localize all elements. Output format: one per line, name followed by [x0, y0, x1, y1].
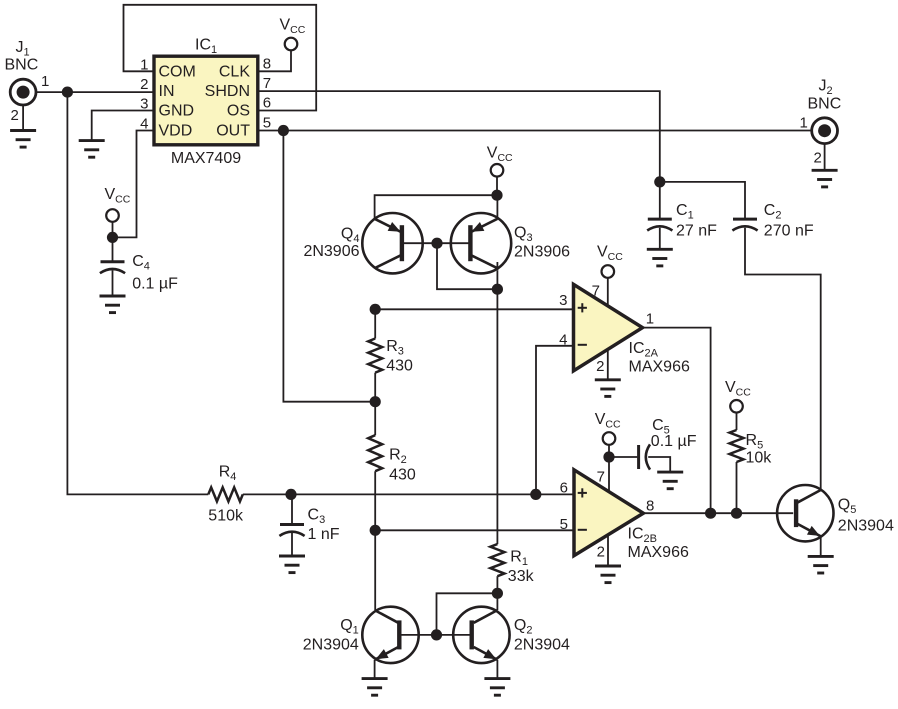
svg-text:2N3906: 2N3906	[303, 243, 359, 260]
svg-text:1: 1	[646, 311, 654, 328]
svg-text:6: 6	[263, 95, 271, 112]
svg-text:430: 430	[389, 467, 416, 484]
svg-text:3: 3	[559, 292, 567, 309]
svg-text:5: 5	[560, 516, 568, 533]
svg-text:2: 2	[140, 76, 148, 93]
svg-text:7: 7	[597, 469, 605, 486]
svg-text:4: 4	[559, 331, 567, 348]
svg-text:BNC: BNC	[808, 96, 842, 113]
svg-text:1 nF: 1 nF	[308, 526, 340, 543]
svg-text:2: 2	[11, 107, 19, 124]
svg-text:VDD: VDD	[159, 123, 193, 140]
svg-text:2N3906: 2N3906	[514, 244, 570, 261]
svg-text:2: 2	[596, 358, 604, 375]
svg-text:7: 7	[263, 75, 271, 92]
svg-text:10k: 10k	[746, 450, 773, 467]
svg-text:5: 5	[263, 115, 271, 132]
svg-text:270 nF: 270 nF	[764, 223, 814, 240]
svg-text:0.1 µF: 0.1 µF	[651, 433, 697, 450]
svg-text:MAX966: MAX966	[628, 544, 689, 561]
svg-text:27 nF: 27 nF	[676, 223, 717, 240]
svg-text:2N3904: 2N3904	[838, 518, 894, 535]
svg-text:1: 1	[41, 73, 49, 90]
svg-text:6: 6	[560, 480, 568, 497]
svg-text:0.1 µF: 0.1 µF	[132, 276, 178, 293]
svg-text:SHDN: SHDN	[205, 83, 250, 100]
svg-text:8: 8	[263, 55, 271, 72]
svg-text:IN: IN	[159, 83, 175, 100]
svg-text:1: 1	[140, 56, 148, 73]
svg-text:3: 3	[140, 96, 148, 113]
svg-text:2: 2	[597, 544, 605, 561]
svg-text:OS: OS	[227, 103, 250, 120]
svg-text:4: 4	[140, 116, 148, 133]
svg-text:2N3904: 2N3904	[303, 637, 359, 654]
svg-text:GND: GND	[159, 103, 195, 120]
svg-text:510k: 510k	[208, 508, 244, 525]
svg-text:2: 2	[814, 150, 822, 167]
svg-text:MAX7409: MAX7409	[171, 150, 241, 167]
svg-text:OUT: OUT	[216, 123, 250, 140]
svg-text:2N3904: 2N3904	[514, 637, 570, 654]
svg-text:BNC: BNC	[5, 57, 39, 74]
svg-text:1: 1	[800, 115, 808, 132]
svg-text:8: 8	[646, 498, 654, 515]
svg-text:MAX966: MAX966	[629, 359, 690, 376]
svg-text:33k: 33k	[508, 568, 535, 585]
svg-text:COM: COM	[159, 63, 196, 80]
svg-text:430: 430	[386, 358, 413, 375]
svg-text:7: 7	[592, 283, 600, 300]
svg-text:CLK: CLK	[219, 63, 250, 80]
